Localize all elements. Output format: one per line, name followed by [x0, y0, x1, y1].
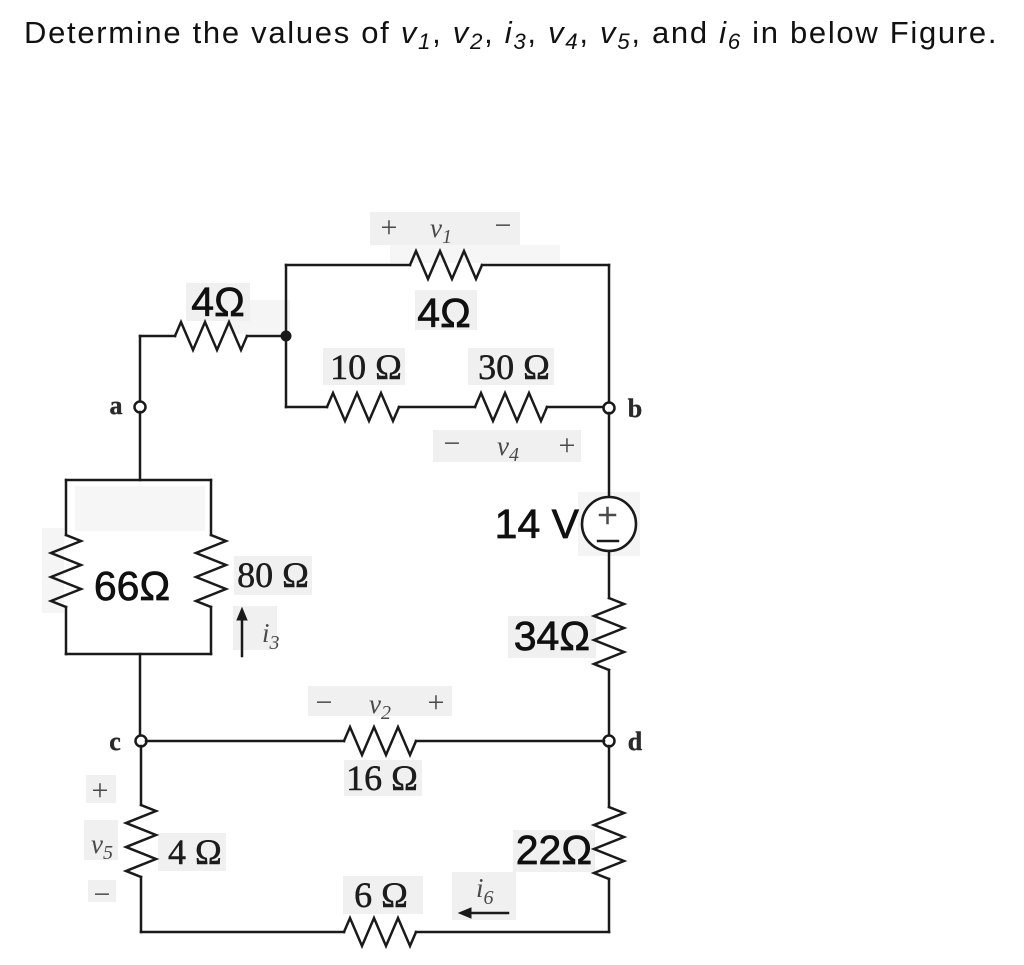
- label i6: [476, 873, 494, 909]
- svg-text:80 Ω: 80 Ω: [237, 555, 309, 595]
- resistor 6-ohm: [344, 918, 416, 946]
- label node b: [628, 394, 642, 423]
- wire c down to v5 resistor: [140, 746, 143, 805]
- svg-text:−: −: [94, 878, 111, 911]
- label minus of v1: [495, 209, 512, 242]
- label node c: [109, 727, 121, 756]
- svg-text:4Ω: 4Ω: [417, 290, 470, 336]
- node d: [604, 736, 615, 747]
- resistor 66-ohm (vertical): [51, 535, 81, 607]
- resistor 80-ohm (vertical): [196, 535, 226, 607]
- label 4-ohm (left): [191, 279, 244, 325]
- label node a: [110, 391, 123, 420]
- wire from left 4-ohm to junction: [247, 335, 286, 338]
- svg-text:+: +: [92, 774, 109, 807]
- label 6-ohm: [354, 875, 408, 915]
- wire 30-ohm to node b: [547, 406, 603, 409]
- svg-text:14 V: 14 V: [495, 501, 580, 547]
- wire top branch right: [482, 264, 609, 267]
- wire box bottom to node c: [139, 654, 142, 736]
- label 16-ohm: [346, 758, 418, 798]
- resistor 34-ohm (vertical): [594, 598, 624, 670]
- wire 34-ohm to node d: [608, 670, 611, 736]
- arrow i6: [459, 908, 508, 918]
- label v2: [369, 689, 391, 724]
- wire d down to 22-ohm: [608, 746, 611, 807]
- node c: [136, 736, 147, 747]
- resistor 10-ohm: [327, 393, 399, 421]
- wire bottom right: [416, 931, 609, 934]
- wire top branch left: [286, 264, 410, 267]
- svg-text:34Ω: 34Ω: [514, 613, 590, 659]
- svg-text:22Ω: 22Ω: [516, 827, 592, 873]
- label i3: [262, 618, 280, 654]
- wire right vertical top (b up to top branch): [608, 265, 611, 403]
- label plus of v5: [92, 774, 109, 807]
- wire between 10-ohm and 30-ohm: [399, 406, 475, 409]
- resistor 16-ohm: [344, 727, 416, 755]
- svg-text:d: d: [628, 727, 643, 756]
- wire a down to parallel box: [139, 412, 142, 480]
- voltage source 14V: [582, 497, 636, 551]
- label v5: [91, 829, 113, 864]
- resistor 4-ohm (top, horizontal): [410, 251, 482, 279]
- svg-text:4Ω: 4Ω: [191, 279, 244, 325]
- wire parallel box bottom: [66, 653, 211, 656]
- label 66-ohm: [94, 563, 170, 609]
- svg-text:a: a: [110, 391, 123, 420]
- label 34-ohm: [514, 613, 590, 659]
- node a: [135, 402, 146, 413]
- svg-text:4 Ω: 4 Ω: [168, 832, 222, 872]
- node b: [604, 403, 615, 414]
- svg-text:b: b: [628, 394, 642, 423]
- svg-text:−: −: [316, 686, 333, 719]
- wire box left upper: [65, 480, 68, 535]
- label 10-ohm: [330, 347, 402, 387]
- svg-text:30 Ω: 30 Ω: [478, 347, 550, 387]
- resistor 4-ohm v5 (vertical): [126, 805, 156, 877]
- svg-text:16 Ω: 16 Ω: [346, 758, 418, 798]
- svg-text:+: +: [381, 211, 398, 244]
- arrow i3: [237, 608, 247, 656]
- resistor 30-ohm: [475, 393, 547, 421]
- wire b down to source: [608, 413, 611, 497]
- label plus of v4: [559, 429, 576, 462]
- wire middle branch left: [286, 406, 327, 409]
- wire bottom left: [141, 931, 344, 934]
- label v1: [430, 213, 452, 248]
- svg-text:+: +: [428, 686, 445, 719]
- label minus of v5: [94, 878, 111, 911]
- label v4: [497, 431, 519, 466]
- svg-text:−: −: [495, 209, 512, 242]
- svg-text:−: −: [444, 427, 461, 460]
- svg-text:10 Ω: 10 Ω: [330, 347, 402, 387]
- wire c to 16-ohm: [146, 740, 344, 743]
- wire a up to left 4-ohm branch: [139, 336, 142, 402]
- junction dot: [281, 331, 292, 342]
- resistor 22-ohm (vertical): [594, 807, 624, 879]
- wire box left lower: [65, 607, 68, 654]
- label 4-ohm (top): [417, 290, 470, 336]
- wire box right lower: [210, 607, 213, 654]
- wire 16-ohm to node d: [416, 740, 604, 743]
- svg-text:66Ω: 66Ω: [94, 563, 170, 609]
- label plus of v2: [428, 686, 445, 719]
- wire parallel box top: [66, 479, 211, 482]
- wire v5 to bottom: [140, 877, 143, 932]
- resistor 4-ohm (left, horizontal): [175, 322, 247, 350]
- label plus of v1: [381, 211, 398, 244]
- label 80-ohm: [237, 555, 309, 595]
- wire left horizontal into R 4-ohm: [140, 335, 175, 338]
- label 4-ohm of v5: [168, 832, 222, 872]
- label 14 V: [495, 501, 580, 547]
- wire vertical junction line: [285, 265, 288, 407]
- svg-text:6 Ω: 6 Ω: [354, 875, 408, 915]
- label 30-ohm: [478, 347, 550, 387]
- wire box right upper: [210, 480, 213, 535]
- problem statement text: [24, 15, 998, 51]
- svg-text:c: c: [109, 727, 121, 756]
- wire 22-ohm to bottom: [608, 879, 611, 932]
- label 22-ohm: [516, 827, 592, 873]
- label minus of v2: [316, 686, 333, 719]
- svg-text:+: +: [559, 429, 576, 462]
- wire source to 34-ohm: [608, 551, 611, 598]
- label minus of v4: [444, 427, 461, 460]
- label node d: [628, 727, 643, 756]
